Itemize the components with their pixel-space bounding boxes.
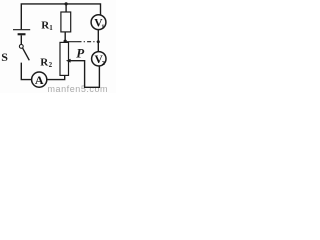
- svg-text:A: A: [35, 73, 44, 87]
- switch S blade: [23, 48, 30, 60]
- battery (long plate): [13, 29, 30, 31]
- node junction V1/V2 tap: [97, 40, 100, 43]
- wire switch to bottom-left corner to ammeter: [21, 63, 31, 80]
- svg-text:P: P: [76, 45, 85, 60]
- svg-text:2: 2: [49, 61, 53, 69]
- wire V1 bottom to V2 top: [97, 30, 99, 52]
- voltmeter V1: [91, 15, 106, 30]
- resistor R2 (rheostat body): [60, 42, 69, 75]
- switch S pivot: [19, 45, 23, 49]
- wire R1 top lead: [65, 4, 67, 12]
- wire ammeter to R2 bottom lead: [47, 75, 65, 79]
- wiper arrowhead: [66, 59, 71, 63]
- resistor R1: [61, 12, 71, 32]
- svg-text:1: 1: [49, 24, 53, 32]
- dash-dot tap wire from R1/R2 junction to voltmeter junction: [67, 41, 78, 43]
- svg-text:1: 1: [101, 23, 104, 30]
- battery (short thick plate): [18, 33, 26, 35]
- node junction on top wire at R1 lead: [65, 2, 68, 5]
- wiper arm wire of rheostat (P) down to V2 bottom: [70, 61, 99, 88]
- svg-text:S: S: [1, 50, 8, 64]
- ammeter A: [32, 72, 47, 87]
- wire top and left (battery+ to V1 top): [21, 4, 100, 29]
- background: [0, 0, 116, 93]
- wire battery to switch: [20, 35, 22, 44]
- node junction between R1 and R2: [63, 40, 66, 43]
- wire R1 bottom to R2 top: [64, 32, 66, 43]
- svg-text:2: 2: [102, 60, 105, 67]
- voltmeter V2: [92, 52, 106, 66]
